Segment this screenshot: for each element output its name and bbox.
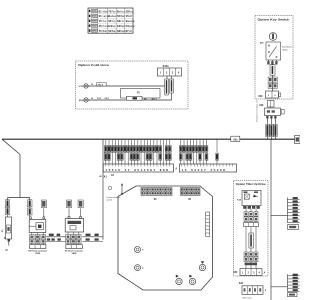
svg-text:Option Key Switch: Option Key Switch — [258, 18, 290, 22]
heater resistor F5 — [121, 89, 161, 101]
relay K14 pin labels — [243, 206, 260, 209]
wire 601 label — [249, 233, 253, 248]
svg-text:61: 61 — [99, 9, 102, 13]
svg-text:75: 75 — [99, 19, 102, 23]
wire: feeder to contactors — [103, 139, 109, 240]
board pot T2 — [189, 275, 195, 285]
svg-text:Lift: Lift — [120, 20, 124, 23]
svg-text:75: 75 — [99, 29, 102, 33]
board hole P1 — [135, 247, 145, 253]
wire to fuse F1 — [5, 198, 10, 218]
svg-text:A: A — [175, 168, 177, 171]
svg-text:15: 15 — [99, 24, 102, 28]
connector X29 lower half — [259, 101, 274, 108]
svg-text:Batt: Batt — [120, 25, 125, 28]
svg-text:X29: X29 — [259, 105, 264, 107]
svg-text:Batt: Batt — [112, 30, 117, 33]
svg-text:X29: X29 — [258, 96, 263, 98]
wires K2 to K1 — [46, 234, 65, 242]
svg-text:Option Tiller Up Drive: Option Tiller Up Drive — [236, 183, 267, 186]
contactor K1 coil — [65, 200, 83, 232]
connector X26 — [239, 283, 267, 299]
relay K10 pins — [266, 116, 276, 119]
board hole P2 — [135, 265, 145, 271]
wire to contactor K2 — [27, 198, 32, 217]
svg-text:Tiller switch: Tiller switch — [242, 296, 252, 299]
svg-text:(Ph): (Ph) — [79, 100, 84, 102]
svg-text:Lift: Lift — [129, 15, 133, 18]
svg-text:switch: switch — [106, 199, 112, 202]
tiller inline connector — [244, 223, 259, 227]
svg-text:40a.1: 40a.1 — [152, 97, 158, 100]
note: prepared in the basic unit — [255, 100, 258, 122]
fuse F1 — [2, 217, 12, 252]
key switch S30 — [260, 33, 292, 60]
svg-text:61: 61 — [99, 14, 102, 18]
svg-text:Lift: Lift — [129, 30, 133, 33]
svg-text:Batt: Batt — [103, 30, 108, 33]
svg-text:Lamp: Lamp — [129, 25, 136, 28]
harness stub ladder X23 — [288, 274, 300, 297]
contactor K1 terminal grid — [65, 232, 83, 255]
wire label 60.1 vertical — [165, 79, 169, 95]
wire: left feeder diagonal — [2, 139, 30, 197]
contactor K2 coil — [29, 200, 46, 233]
harness stub ladder X22 — [288, 197, 300, 229]
wire 23.1 lower — [88, 76, 171, 100]
option box: Cold store — [76, 61, 189, 109]
legend table — [88, 8, 135, 33]
connector X10a — [158, 64, 182, 76]
svg-text:Key Switch: Key Switch — [282, 46, 292, 49]
board connector X7 vertical — [206, 212, 210, 237]
wire 615 label chain — [268, 64, 277, 91]
wires key switch to bus — [266, 119, 278, 140]
svg-text:Fan: Fan — [112, 25, 117, 28]
key switch pins — [267, 60, 277, 65]
board pot W — [199, 261, 205, 270]
wire label 4/6a.1 vertical — [170, 79, 174, 93]
node A between strips — [175, 168, 177, 171]
wires right of K1 — [82, 234, 103, 242]
svg-text:Option Cold store: Option Cold store — [78, 63, 109, 67]
wire bank to X2 — [179, 139, 218, 164]
svg-text:X10a: X10a — [163, 64, 170, 68]
svg-text:S100a: S100a — [282, 49, 289, 51]
sensor C2 arrow — [106, 175, 123, 202]
svg-text:X26: X26 — [239, 283, 244, 285]
bus label X30 — [231, 136, 240, 141]
tiller lower label row — [245, 263, 257, 266]
svg-text:20a.2: 20a.2 — [98, 84, 104, 86]
board connector X6 — [141, 188, 172, 201]
board connector X5 — [181, 188, 201, 201]
svg-text:Fan: Fan — [112, 10, 117, 13]
svg-text:X30: X30 — [233, 138, 238, 141]
tiller wires with labels — [244, 209, 258, 269]
connector strip X1 — [99, 164, 173, 178]
wire: right riser — [270, 139, 272, 300]
wire bank to X1 — [104, 139, 171, 164]
connector X29 upper half — [258, 91, 280, 98]
connector X20 — [233, 269, 265, 276]
option box: Tiller Up Drive — [234, 181, 269, 277]
wire branch to X22 — [271, 215, 288, 217]
controller board outline — [118, 186, 213, 290]
board pot T1 — [176, 275, 182, 285]
svg-text:Prepared in the basic unit: Prepared in the basic unit — [255, 100, 258, 122]
svg-text:Lamp: Lamp — [129, 20, 136, 23]
svg-text:X20: X20 — [233, 272, 238, 274]
contactor K2 terminal grid — [28, 233, 47, 256]
relay contact K13 — [79, 84, 88, 88]
option box: Key Switch — [255, 16, 293, 100]
wire branch to X23 — [271, 286, 288, 288]
horn contact Ph — [79, 98, 88, 102]
relay K10 — [265, 108, 285, 116]
svg-text:Batt: Batt — [120, 15, 125, 18]
connector strip X2 — [179, 164, 236, 172]
svg-text:(L): (L) — [5, 250, 8, 252]
wire: main supply bus — [2, 138, 295, 140]
svg-text:Trailer interface: Trailer interface — [106, 196, 121, 199]
relay K14 — [237, 191, 261, 206]
off-page connector right — [295, 136, 301, 144]
svg-text:X1: X1 — [104, 174, 108, 178]
wire 20a.2 upper — [88, 76, 167, 86]
